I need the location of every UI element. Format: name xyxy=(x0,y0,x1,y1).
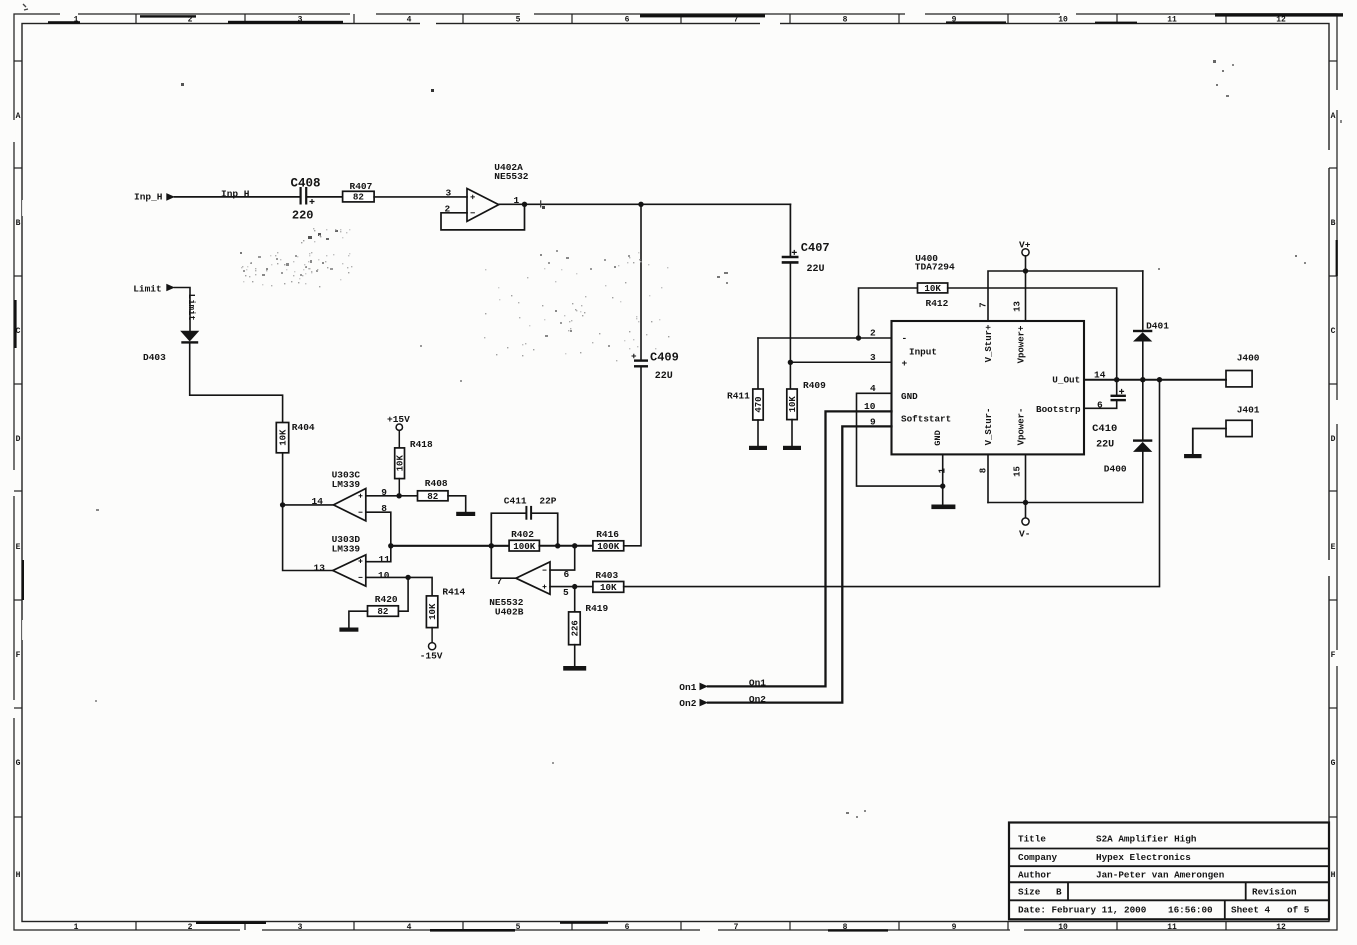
svg-text:U402B: U402B xyxy=(495,607,524,618)
svg-text:R411: R411 xyxy=(727,391,750,402)
wire D400 to V- rail xyxy=(988,452,1143,503)
ground (J401) xyxy=(1184,454,1202,458)
wire V+ stub xyxy=(1025,256,1027,321)
svg-text:82: 82 xyxy=(427,491,438,502)
ground (R409) xyxy=(783,446,801,450)
wire U303C pin9 xyxy=(366,495,418,497)
svg-text:2: 2 xyxy=(870,328,876,339)
svg-text:16:56:00: 16:56:00 xyxy=(1168,905,1213,916)
stray pen mark top-left xyxy=(23,4,28,10)
op-amp U402A xyxy=(467,189,499,222)
svg-text:Company: Company xyxy=(1018,852,1057,863)
comparator U303C xyxy=(334,489,366,521)
svg-text:H: H xyxy=(1331,871,1336,880)
wire C411 right xyxy=(532,513,558,546)
title block text row1 xyxy=(1018,834,1197,845)
ground (R420) xyxy=(339,628,358,632)
wire V- stub xyxy=(1025,503,1027,518)
ruler letters left xyxy=(16,112,21,880)
svg-text:220: 220 xyxy=(292,208,314,222)
wire U303C pin8 xyxy=(366,512,391,546)
svg-text:On2: On2 xyxy=(679,698,696,709)
capacitor C408 xyxy=(291,176,321,222)
svg-text:A: A xyxy=(1331,112,1336,121)
svg-text:GND: GND xyxy=(901,391,918,402)
resistor R404 xyxy=(276,422,315,453)
svg-text:22U: 22U xyxy=(1096,439,1114,450)
title block text row3 xyxy=(1018,870,1225,881)
svg-text:Input: Input xyxy=(909,346,937,357)
svg-text:6: 6 xyxy=(564,569,570,580)
ruler ticks right band xyxy=(1329,61,1337,817)
label C407 22U xyxy=(801,241,830,275)
svg-text:82: 82 xyxy=(377,606,388,617)
svg-text:D401: D401 xyxy=(1146,320,1169,331)
svg-text:8: 8 xyxy=(979,468,989,473)
svg-text:D400: D400 xyxy=(1104,463,1127,474)
wire R408 to ground xyxy=(448,496,466,512)
svg-text:14: 14 xyxy=(312,496,324,507)
svg-text:On2: On2 xyxy=(749,694,766,705)
scan noise speckles xyxy=(95,60,1342,818)
capacitor C410 xyxy=(1111,389,1126,400)
svg-text:13: 13 xyxy=(1013,301,1023,312)
svg-text:Vpower-: Vpower- xyxy=(1016,408,1026,446)
svg-text:C409: C409 xyxy=(650,351,679,365)
wire R414 to -15V xyxy=(431,628,433,643)
wire R419 riser xyxy=(574,587,576,612)
wire pin2 node to R412 xyxy=(859,288,918,338)
capacitor C407 xyxy=(782,250,799,263)
svg-text:10K: 10K xyxy=(924,283,941,294)
wire pin4 to ground xyxy=(857,393,943,486)
svg-text:R412: R412 xyxy=(926,298,949,309)
svg-text:11: 11 xyxy=(379,554,391,565)
svg-text:R409: R409 xyxy=(803,380,826,391)
wire U_Out to J400 xyxy=(1084,379,1226,381)
node pin6 riser xyxy=(572,543,577,548)
node ground junction xyxy=(940,483,945,488)
svg-text:R403: R403 xyxy=(595,570,618,581)
resistor R403 xyxy=(593,570,624,593)
power V+ xyxy=(1019,239,1031,256)
svg-text:H: H xyxy=(16,871,21,880)
node R404 / pin14 xyxy=(280,502,285,507)
svg-text:5: 5 xyxy=(516,923,521,932)
svg-text:11: 11 xyxy=(1167,923,1177,932)
label U400 TDA7294 xyxy=(915,253,955,273)
ruler numbers bottom xyxy=(74,923,1286,932)
svg-text:On1: On1 xyxy=(749,678,766,689)
node R402 left / C411 / U402B out xyxy=(489,543,494,548)
svg-text:D: D xyxy=(1331,435,1336,444)
svg-text:D403: D403 xyxy=(143,352,166,363)
svg-text:C407: C407 xyxy=(801,241,830,255)
wire R403 feedback to U_Out xyxy=(624,380,1160,587)
svg-text:Inp_H: Inp_H xyxy=(134,191,163,202)
IC pin texts left xyxy=(901,333,951,425)
label C410 22U xyxy=(1092,423,1117,450)
wire U303D pin10 xyxy=(366,577,432,596)
svg-text:10: 10 xyxy=(378,570,390,581)
wire R420 to ground xyxy=(349,611,368,627)
svg-text:Title: Title xyxy=(1018,834,1046,845)
resistor R408 xyxy=(418,478,449,502)
svg-text:8: 8 xyxy=(843,16,848,25)
resistor R402 xyxy=(509,529,539,552)
svg-text:Bootstrp: Bootstrp xyxy=(1036,404,1081,415)
wire C410 to pin6 xyxy=(1084,400,1117,408)
IC U400 TDA7294 box xyxy=(892,321,1085,454)
svg-text:10K: 10K xyxy=(428,603,438,620)
svg-text:Sheet 4: Sheet 4 xyxy=(1231,905,1270,916)
svg-text:11: 11 xyxy=(1167,16,1177,25)
op-amp U402B xyxy=(516,562,550,594)
svg-text:4: 4 xyxy=(870,383,876,394)
wire U402B output to node xyxy=(491,546,516,578)
wire U402B pin5 xyxy=(550,586,593,588)
node C411 right xyxy=(555,543,560,548)
svg-text:4: 4 xyxy=(407,16,412,25)
svg-text:10K: 10K xyxy=(396,455,406,472)
resistor R420 xyxy=(368,594,399,617)
node V+ rail xyxy=(1023,268,1028,273)
svg-text:C: C xyxy=(1331,327,1336,336)
svg-text:C410: C410 xyxy=(1092,423,1117,435)
wire R411 riser xyxy=(757,338,759,389)
svg-text:C411: C411 xyxy=(504,495,527,506)
resistor R409 xyxy=(787,380,826,420)
label U303D LM339 xyxy=(332,534,361,555)
wire C411 loop xyxy=(491,513,526,546)
wire R416 to C409 riser xyxy=(624,367,641,545)
wire pin2 xyxy=(758,337,892,339)
svg-text:V-: V- xyxy=(1019,528,1030,539)
resistor R418 xyxy=(395,439,433,478)
svg-text:4: 4 xyxy=(407,923,412,932)
svg-text:F: F xyxy=(1331,651,1336,660)
wire R404 to comparators xyxy=(283,453,333,571)
power +15V xyxy=(387,414,410,430)
node U_Out/diodes xyxy=(1140,377,1145,382)
svg-text:Vpower+: Vpower+ xyxy=(1016,326,1026,364)
svg-text:1: 1 xyxy=(74,923,79,932)
rotated pin numbers 7 13 8 15 1 xyxy=(938,301,1023,477)
node U_Out/R412 xyxy=(1114,377,1119,382)
ground (R408) xyxy=(456,512,475,516)
svg-text:R402: R402 xyxy=(511,529,534,540)
svg-text:Size: Size xyxy=(1018,887,1041,898)
node pin3/C407/R409 xyxy=(788,360,793,365)
svg-text:R416: R416 xyxy=(596,529,619,540)
svg-text:A: A xyxy=(16,112,21,121)
svg-text:100K: 100K xyxy=(597,541,620,552)
svg-text:J401: J401 xyxy=(1237,405,1260,416)
svg-text:6: 6 xyxy=(625,16,630,25)
wire output rail to C407 xyxy=(789,204,791,255)
svg-text:3: 3 xyxy=(298,923,303,932)
wire R411 to ground xyxy=(757,420,759,446)
wire +15V to R418 xyxy=(398,430,400,448)
wire pin9 / On2 net xyxy=(708,426,892,702)
wire comparator output node to R402 xyxy=(391,545,509,547)
node U402A output xyxy=(522,202,527,207)
svg-text:E: E xyxy=(16,543,21,552)
svg-text:TDA7294: TDA7294 xyxy=(915,261,955,272)
svg-text:G: G xyxy=(16,759,21,768)
resistor R419 xyxy=(569,603,609,645)
ruler letters right xyxy=(1331,112,1336,880)
ground (R411) xyxy=(749,446,767,450)
ruler ticks top band xyxy=(136,14,1226,24)
svg-text:S2A Amplifier High: S2A Amplifier High xyxy=(1096,834,1197,845)
svg-text:Author: Author xyxy=(1018,870,1051,881)
svg-text:82: 82 xyxy=(353,192,364,203)
wire R402 to R416 xyxy=(539,545,593,547)
diode D401 xyxy=(1133,330,1152,342)
svg-text:Revision: Revision xyxy=(1252,887,1297,898)
svg-text:D: D xyxy=(16,435,21,444)
port Limit xyxy=(133,283,175,294)
wire node to U303C pin14 xyxy=(283,504,334,506)
wire C409 top riser xyxy=(640,204,642,359)
wire pin15 riser xyxy=(1025,454,1027,502)
connector J401 xyxy=(1226,420,1252,436)
svg-text:Hypex Electronics: Hypex Electronics xyxy=(1096,852,1191,863)
wire U303D pin11 xyxy=(366,546,391,562)
label NE5532 U402B xyxy=(489,597,524,618)
svg-text:-: - xyxy=(902,333,908,344)
diode D403 xyxy=(181,331,198,343)
wire pin10 / On1 net xyxy=(708,411,892,686)
svg-text:10K: 10K xyxy=(279,429,289,446)
ruler ticks bottom band xyxy=(136,922,1226,931)
wire D401 to U_Out xyxy=(1142,342,1144,380)
svg-text:Limit: Limit xyxy=(133,283,162,294)
ground (R419) xyxy=(563,666,586,671)
wire U402B pin6 xyxy=(550,546,575,570)
wire U402A output rail xyxy=(499,203,791,205)
diode D400 xyxy=(1133,439,1152,452)
svg-text:12: 12 xyxy=(1276,16,1286,25)
wire U_Out to D400 xyxy=(1142,380,1144,440)
svg-text:V_Stur-: V_Stur- xyxy=(984,408,994,446)
svg-text:R418: R418 xyxy=(410,439,433,450)
wire Inp_H to C408 xyxy=(175,196,300,198)
svg-text:GND: GND xyxy=(933,430,943,445)
svg-text:2: 2 xyxy=(188,923,193,932)
svg-text:B: B xyxy=(1331,219,1336,228)
svg-text:Limit: Limit xyxy=(186,294,196,321)
wire J401 to ground xyxy=(1193,429,1226,455)
svg-text:22P: 22P xyxy=(539,495,556,506)
wire C407 to pin3 node xyxy=(789,264,791,389)
svg-text:R408: R408 xyxy=(425,478,448,489)
svg-text:NE5532: NE5532 xyxy=(494,171,529,182)
wire pin3 xyxy=(790,361,891,363)
svg-text:Jan-Peter van Amerongen: Jan-Peter van Amerongen xyxy=(1096,870,1225,881)
node U_Out/feedback xyxy=(1157,377,1162,382)
svg-text:V_Stur+: V_Stur+ xyxy=(984,325,994,363)
svg-text:U_Out: U_Out xyxy=(1052,375,1080,386)
node V- rail xyxy=(1023,500,1028,505)
svg-text:7: 7 xyxy=(734,923,739,932)
wire C408 to R407 xyxy=(307,196,343,198)
label U303C LM339 xyxy=(332,469,361,490)
svg-text:LM339: LM339 xyxy=(332,544,361,555)
svg-text:J400: J400 xyxy=(1237,352,1260,363)
resistor R416 xyxy=(593,529,624,552)
connector J400 xyxy=(1226,371,1252,387)
svg-text:C408: C408 xyxy=(291,176,321,190)
wire pin8 riser xyxy=(987,454,989,502)
IC rotated pin texts xyxy=(933,325,1026,446)
wire IC bottom GND pin1 stub xyxy=(942,454,944,486)
svg-text:Softstart: Softstart xyxy=(901,414,951,425)
node pin8/pin11 xyxy=(388,543,393,548)
label C411 22P xyxy=(504,495,557,506)
svg-text:R404: R404 xyxy=(292,422,315,433)
node C409 branch xyxy=(638,202,643,207)
port On1 xyxy=(679,682,708,693)
svg-text:On1: On1 xyxy=(679,682,696,693)
wire R407 to U402A pin3 xyxy=(374,196,467,198)
wire V+ rail xyxy=(988,271,1143,321)
svg-text:226: 226 xyxy=(571,620,581,636)
svg-text:B: B xyxy=(16,219,21,228)
scan noise patches xyxy=(241,228,669,361)
svg-text:8: 8 xyxy=(381,503,387,514)
title block xyxy=(1009,823,1329,920)
svg-text:R407: R407 xyxy=(350,181,373,192)
svg-text:3: 3 xyxy=(446,187,452,198)
capacitor C411 xyxy=(526,506,531,520)
node pin5/R403/R419 xyxy=(572,584,577,589)
svg-text:G: G xyxy=(1331,759,1336,768)
svg-text:LM339: LM339 xyxy=(332,479,361,490)
label U402A NE5532 xyxy=(494,162,529,182)
svg-text:13: 13 xyxy=(314,562,326,573)
svg-text:+: + xyxy=(902,358,908,369)
port Inp_H xyxy=(134,191,175,202)
wire Limit to D403 xyxy=(175,288,191,332)
resistor R407 xyxy=(343,181,375,203)
power -15V xyxy=(420,643,443,662)
svg-text:E: E xyxy=(1331,543,1336,552)
svg-text:7: 7 xyxy=(979,302,989,307)
svg-text:15: 15 xyxy=(1013,466,1023,477)
wire to ground bar xyxy=(942,486,944,504)
svg-text:of 5: of 5 xyxy=(1287,905,1310,916)
wire R418 to pin9 node xyxy=(398,479,400,496)
svg-text:B: B xyxy=(1056,887,1062,898)
comparator U303D xyxy=(333,555,366,586)
node pin2/R412 riser xyxy=(856,335,861,340)
node pin9/R418 xyxy=(396,493,401,498)
svg-text:470: 470 xyxy=(754,396,764,412)
label C409 22U xyxy=(650,351,679,383)
title block text row4 xyxy=(1018,887,1297,898)
svg-text:22U: 22U xyxy=(807,264,825,275)
wire R412 to U_Out node xyxy=(948,288,1117,395)
wire R419 to ground xyxy=(574,645,576,666)
resistor R414 xyxy=(426,587,465,628)
wire node to R420 xyxy=(398,577,408,611)
svg-text:100K: 100K xyxy=(513,541,536,552)
ruler numbers top xyxy=(74,16,1286,25)
svg-text:22U: 22U xyxy=(655,371,673,382)
svg-text:9: 9 xyxy=(381,487,387,498)
svg-text:-15V: -15V xyxy=(420,650,443,661)
svg-text:F: F xyxy=(16,651,21,660)
title block text row2 xyxy=(1018,852,1191,863)
capacitor C409 xyxy=(632,354,649,367)
ground (U400) xyxy=(931,505,955,510)
svg-text:R414: R414 xyxy=(442,587,465,598)
svg-text:10K: 10K xyxy=(788,396,798,413)
svg-text:12: 12 xyxy=(1276,923,1286,932)
resistor R411 xyxy=(727,389,764,420)
svg-text:Date: February 11, 2000: Date: February 11, 2000 xyxy=(1018,905,1147,916)
svg-text:9: 9 xyxy=(952,923,957,932)
svg-text:R420: R420 xyxy=(375,594,398,605)
wire D401 anode riser xyxy=(1142,271,1144,330)
power V- xyxy=(1019,518,1030,539)
svg-text:10: 10 xyxy=(1058,16,1068,25)
port On2 xyxy=(679,698,708,709)
title block text row5 xyxy=(1018,905,1310,916)
node pin10/R420/R414 xyxy=(405,575,410,580)
ruler ticks left band xyxy=(14,61,22,817)
resistor R412 xyxy=(918,283,949,309)
svg-text:3: 3 xyxy=(870,352,876,363)
wire R409 to ground xyxy=(791,420,793,446)
svg-text:5: 5 xyxy=(563,587,569,598)
svg-text:6: 6 xyxy=(625,923,630,932)
svg-text:5: 5 xyxy=(516,16,521,25)
wire D403 to R404 xyxy=(190,344,283,423)
wire U402A feedback loop xyxy=(441,204,525,230)
svg-text:10K: 10K xyxy=(600,582,617,593)
svg-text:10: 10 xyxy=(1058,923,1068,932)
junction tick artifact xyxy=(540,201,542,207)
svg-text:R419: R419 xyxy=(585,603,608,614)
